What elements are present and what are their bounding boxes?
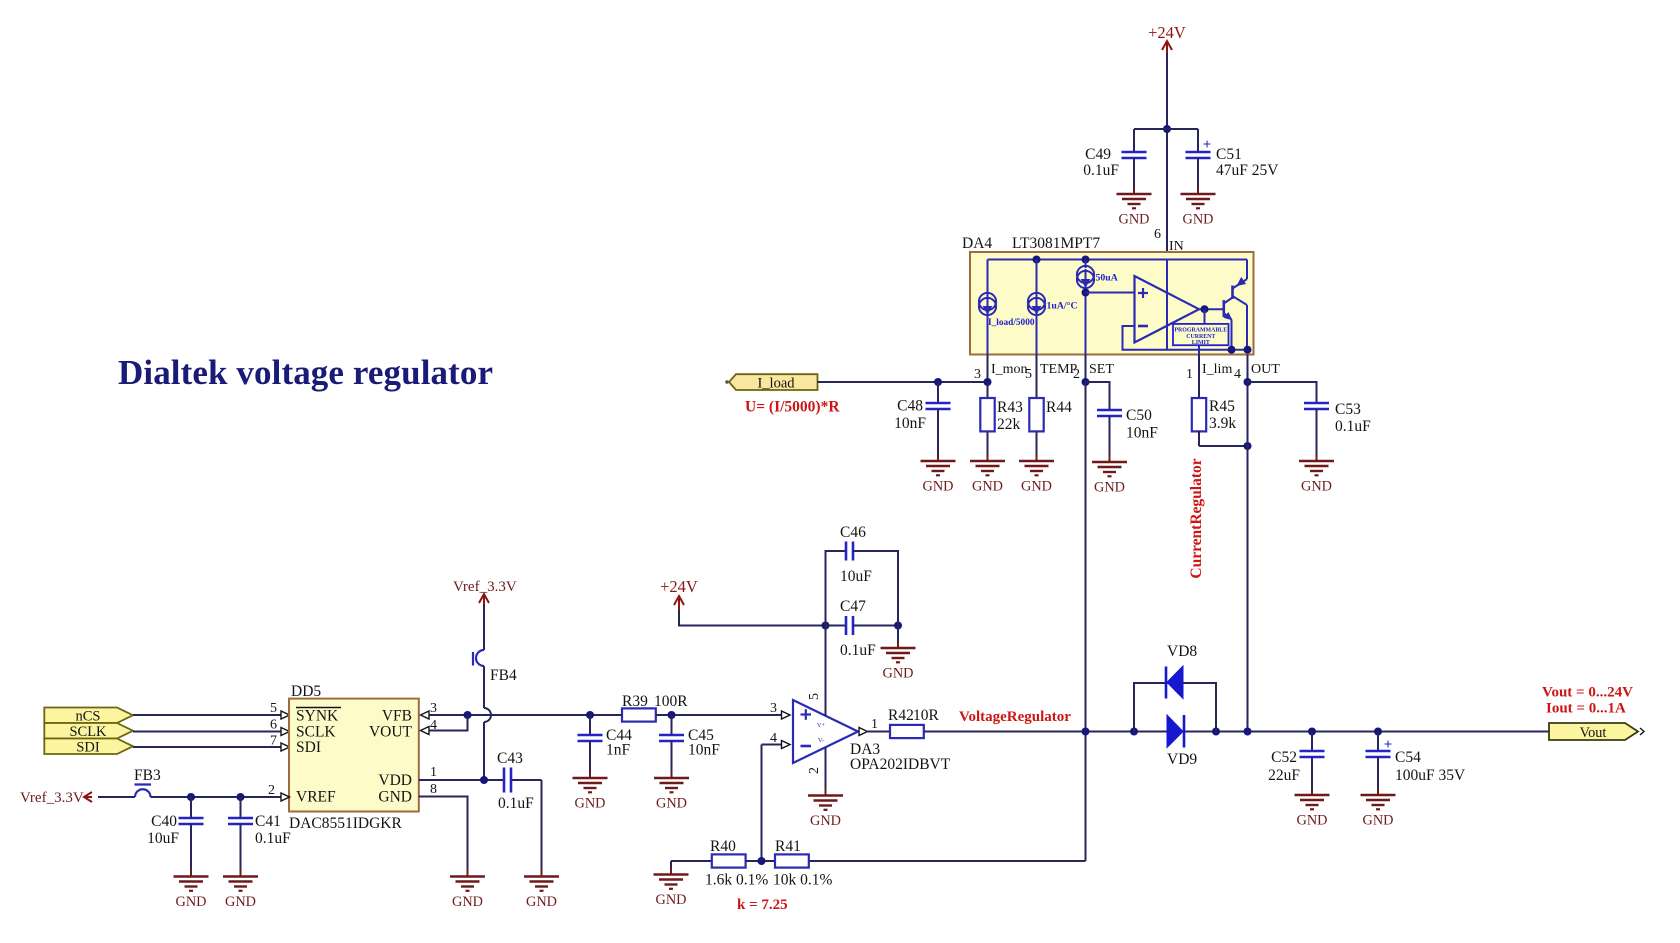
- diode VD8: [1167, 666, 1183, 699]
- svg-text:R43: R43: [997, 399, 1023, 416]
- svg-text:I_mon: I_mon: [991, 362, 1028, 377]
- wire nCS to SYNK: [133, 714, 281, 716]
- svg-text:4: 4: [1234, 367, 1241, 382]
- svg-text:6: 6: [1154, 227, 1161, 242]
- svg-text:5: 5: [1025, 367, 1032, 382]
- wire +24V to C47: [679, 610, 826, 626]
- node VD junction right: [1212, 728, 1220, 736]
- svg-text:1uA/°C: 1uA/°C: [1047, 301, 1078, 312]
- svg-text:SET: SET: [1089, 362, 1114, 377]
- node DA4 emitter-rail junction: [1228, 346, 1236, 354]
- capacitor C48 10nF: [937, 382, 939, 403]
- svg-text:SDI: SDI: [296, 739, 321, 756]
- wire PCL to I_lim pin: [1198, 345, 1200, 354]
- svg-text:GND: GND: [526, 894, 557, 910]
- svg-text:Dialtek voltage regulator: Dialtek voltage regulator: [118, 353, 493, 392]
- port SDI: [44, 739, 133, 755]
- pin 3 arrow (DA3 +): [782, 711, 791, 719]
- node VDD junction: [480, 776, 488, 784]
- svg-text:R42: R42: [888, 707, 914, 724]
- svg-text:VOUT: VOUT: [369, 724, 413, 741]
- svg-text:7: 7: [270, 734, 277, 749]
- svg-text:2: 2: [268, 783, 275, 798]
- svg-text:R44: R44: [1046, 399, 1072, 416]
- node OUT-C53 junction: [1244, 378, 1252, 386]
- wire +24V vertical to IN pin 6: [1166, 53, 1168, 260]
- ground GND (C43): [524, 875, 559, 878]
- svg-text:PROGRAMMABLE: PROGRAMMABLE: [1174, 328, 1227, 334]
- svg-text:LIMIT: LIMIT: [1192, 340, 1210, 346]
- wire VD8 bypass loop: [1134, 683, 1216, 732]
- svg-text:3.9k: 3.9k: [1209, 415, 1236, 432]
- capacitor C52 22uF: [1308, 728, 1316, 736]
- svg-text:I_load/5000: I_load/5000: [988, 318, 1035, 328]
- svg-text:2: 2: [1073, 367, 1080, 382]
- wire DA4 SET branch upper: [1085, 260, 1087, 269]
- svg-text:GND: GND: [923, 479, 954, 495]
- node SET-output junction: [1082, 728, 1090, 736]
- svg-text:R40: R40: [710, 838, 736, 855]
- svg-text:GND: GND: [883, 666, 914, 682]
- node C48 junction: [934, 378, 942, 386]
- svg-text:k = 7.25: k = 7.25: [737, 897, 788, 913]
- node C47 right junction: [894, 622, 902, 630]
- svg-text:IN: IN: [1169, 239, 1184, 254]
- wire output net to Vout: [924, 731, 1549, 733]
- ferrite bead FB4: [472, 652, 474, 666]
- svg-text:22k: 22k: [997, 416, 1021, 433]
- svg-text:GND: GND: [1183, 212, 1214, 228]
- node C40 junction: [187, 793, 195, 801]
- capacitor C50 10nF: [1086, 382, 1110, 410]
- svg-text:GND: GND: [972, 479, 1003, 495]
- transistor Q lower NPN (DA4 internal): [1223, 300, 1226, 317]
- wire R40-R41: [746, 860, 775, 862]
- svg-text:U= (I/5000)*R: U= (I/5000)*R: [745, 399, 840, 416]
- ground GND (C52): [1295, 794, 1330, 797]
- ground GND (C51): [1181, 193, 1216, 196]
- regulator U DA4 LT3081MPT7 body: [970, 252, 1254, 355]
- port I_load: [729, 374, 818, 390]
- node C47 left junction: [822, 622, 830, 630]
- node DA4 TEMP bus junction: [1033, 256, 1041, 264]
- svg-text:50uA: 50uA: [1096, 273, 1118, 284]
- svg-text:C47: C47: [840, 598, 866, 615]
- svg-text:100R: 100R: [654, 693, 688, 710]
- svg-text:GND: GND: [575, 796, 606, 812]
- svg-text:C49: C49: [1085, 146, 1111, 163]
- svg-text:GND: GND: [656, 892, 687, 908]
- svg-text:FB3: FB3: [134, 767, 161, 784]
- ground GND (C49): [1117, 193, 1152, 196]
- resistor R45 3.9k: [1192, 398, 1206, 431]
- block PROGRAMMABLE CURRENT LIMIT (DA4 internal): [1173, 324, 1229, 345]
- wire FB4 down with hop over VFB wire: [483, 666, 485, 708]
- ground GND (C47): [897, 626, 899, 642]
- svg-text:C46: C46: [840, 524, 866, 541]
- ground GND (R44): [1019, 460, 1054, 463]
- svg-text:0.1uF: 0.1uF: [255, 830, 291, 847]
- capacitor C44 1nF: [589, 715, 591, 735]
- svg-text:Vref_3.3V: Vref_3.3V: [20, 790, 84, 806]
- svg-text:GND: GND: [452, 894, 483, 910]
- wire OUT net vertical: [1247, 355, 1249, 732]
- capacitor C46 10uF (feedback loop): [826, 551, 847, 626]
- capacitor C51 47uF 25V (polarized): [1197, 129, 1199, 152]
- svg-text:1nF: 1nF: [606, 742, 631, 759]
- ground GND (C40): [174, 875, 209, 878]
- op-amp U DA3 OPA202IDBVT: [793, 700, 858, 763]
- resistor R40 1.6k 0.1%: [712, 854, 746, 867]
- node C44 junction: [586, 711, 594, 719]
- wire Vref to FB3: [98, 796, 135, 798]
- pin 4 arrow (DA3 -): [782, 741, 791, 749]
- node VFB junction: [464, 711, 472, 719]
- capacitor C47 0.1uF: [826, 625, 847, 627]
- svg-text:+: +: [1203, 137, 1212, 153]
- capacitor C53 0.1uF: [1248, 382, 1317, 403]
- ground GND (C45): [654, 777, 689, 780]
- svg-text:3: 3: [974, 367, 981, 382]
- svg-text:C43: C43: [497, 750, 523, 767]
- svg-text:6: 6: [270, 718, 277, 733]
- svg-text:SDI: SDI: [76, 740, 100, 756]
- svg-text:V+: V+: [817, 722, 826, 729]
- svg-text:C48: C48: [897, 398, 923, 415]
- svg-text:0.1uF: 0.1uF: [498, 795, 534, 812]
- svg-text:8: 8: [430, 782, 437, 797]
- wire I_load to I_mon: [818, 381, 988, 383]
- node I_mon junction: [984, 378, 992, 386]
- node +24V junction: [1163, 125, 1171, 133]
- svg-text:TEMP: TEMP: [1040, 362, 1078, 377]
- ground GND (C53): [1299, 460, 1334, 463]
- port Vout: [1549, 723, 1638, 740]
- svg-text:VD8: VD8: [1167, 643, 1197, 660]
- svg-text:SCLK: SCLK: [296, 724, 336, 741]
- ground GND (DD5 pin8): [450, 875, 485, 878]
- node DA4 SET bus junction: [1082, 256, 1090, 264]
- svg-text:Vout: Vout: [1580, 725, 1607, 741]
- svg-text:DD5: DD5: [291, 683, 321, 700]
- ground GND (C54): [1361, 794, 1396, 797]
- ground GND (DA3): [808, 794, 843, 797]
- port SCLK: [44, 723, 133, 739]
- ground GND (C50): [1092, 461, 1127, 464]
- wire DA4 feedback rail (minus input to output emitter): [1123, 326, 1249, 350]
- svg-text:R39: R39: [622, 693, 648, 710]
- transistor Q upper PNP (DA4 internal): [1231, 286, 1234, 300]
- resistor R41 10k 0.1%: [775, 854, 809, 867]
- pin 3 VFB arrow: [421, 711, 430, 719]
- svg-text:C52: C52: [1271, 749, 1297, 766]
- svg-text:VoltageRegulator: VoltageRegulator: [959, 709, 1071, 725]
- node R45-OUT junction: [1244, 442, 1252, 450]
- svg-text:VREF: VREF: [296, 789, 336, 806]
- pin 2 wire (DA3 V-) and ground: [825, 748, 827, 789]
- wire VFB net to R39: [468, 714, 623, 716]
- wire R39 to op-amp +: [656, 714, 781, 716]
- svg-text:DAC8551IDGKR: DAC8551IDGKR: [289, 815, 402, 832]
- svg-text:OPA202IDBVT: OPA202IDBVT: [850, 756, 951, 773]
- svg-text:47uF 25V: 47uF 25V: [1216, 162, 1279, 179]
- ground GND (C41): [223, 875, 258, 878]
- svg-text:10nF: 10nF: [688, 742, 720, 759]
- svg-text:GND: GND: [176, 894, 207, 910]
- svg-text:SYNK: SYNK: [296, 708, 339, 725]
- node DA4 rail-OUT junction: [1244, 346, 1252, 354]
- svg-text:3: 3: [430, 701, 437, 716]
- pin 5 wire (DA3 V+): [825, 626, 827, 717]
- capacitor C54 100uF 35V (polarized): [1374, 728, 1382, 736]
- svg-text:GND: GND: [225, 894, 256, 910]
- svg-text:R41: R41: [775, 838, 801, 855]
- svg-text:0.1uF: 0.1uF: [1335, 418, 1371, 435]
- ground GND (C48): [921, 460, 956, 463]
- node R40-R41 junction: [758, 857, 766, 865]
- op-amp DA4 internal error amplifier: [1135, 276, 1200, 343]
- current source I_load/5000 (DA4 internal): [979, 293, 996, 310]
- svg-text:10uF: 10uF: [840, 568, 872, 585]
- svg-text:C50: C50: [1126, 407, 1152, 424]
- ground GND (C44): [573, 777, 608, 780]
- svg-text:1: 1: [871, 717, 878, 732]
- svg-text:3: 3: [770, 701, 777, 716]
- resistor R42 10R: [890, 725, 924, 738]
- wire DA4 TEMP branch: [1036, 260, 1038, 355]
- svg-text:100uF 35V: 100uF 35V: [1395, 767, 1466, 784]
- svg-text:Iout = 0...1A: Iout = 0...1A: [1546, 701, 1626, 717]
- node I_load wire end: [725, 380, 729, 384]
- port nCS: [44, 708, 133, 724]
- svg-text:I_load: I_load: [757, 376, 795, 392]
- current source 1uA/degC (DA4 internal): [1028, 293, 1045, 310]
- svg-text:0.1uF: 0.1uF: [840, 642, 876, 659]
- svg-text:5: 5: [807, 693, 822, 700]
- node C41 junction: [237, 793, 245, 801]
- wire DA4 SET branch to + input: [1085, 286, 1087, 355]
- capacitor C49: [1133, 129, 1135, 152]
- svg-text:C41: C41: [255, 813, 281, 830]
- ferrite bead FB3: [135, 783, 152, 785]
- svg-text:OUT: OUT: [1251, 362, 1280, 377]
- svg-text:GND: GND: [810, 813, 841, 829]
- svg-text:10nF: 10nF: [1126, 425, 1158, 442]
- svg-text:10uF: 10uF: [147, 830, 179, 847]
- wire SDI to SDI: [133, 746, 281, 748]
- resistor R39 100R: [622, 708, 656, 721]
- svg-text:C54: C54: [1395, 749, 1421, 766]
- resistor R44: [1036, 355, 1038, 399]
- capacitor C41 0.1uF: [240, 797, 242, 818]
- svg-text:0.1uF: 0.1uF: [1083, 162, 1119, 179]
- wire DA4 internal top bus: [988, 259, 1248, 261]
- svg-text:GND: GND: [378, 789, 412, 806]
- svg-text:GND: GND: [1301, 479, 1332, 495]
- svg-text:R45: R45: [1209, 398, 1235, 415]
- pin 1 output arrow (DA3): [859, 728, 868, 736]
- svg-text:10nF: 10nF: [894, 415, 926, 432]
- node C45 junction: [668, 711, 676, 719]
- diode VD9: [1167, 715, 1183, 748]
- svg-text:GND: GND: [1119, 212, 1150, 228]
- ground GND (R43): [970, 460, 1005, 463]
- capacitor C43 0.1uF: [503, 768, 506, 793]
- svg-text:C51: C51: [1216, 146, 1242, 163]
- svg-text:1.6k 0.1%: 1.6k 0.1%: [705, 872, 768, 889]
- wire C49-C51 top bus: [1134, 128, 1198, 130]
- svg-text:CurrentRegulator: CurrentRegulator: [1188, 458, 1205, 578]
- svg-text:VFB: VFB: [382, 708, 412, 725]
- svg-text:FB4: FB4: [490, 667, 517, 684]
- node OUT-output junction: [1244, 728, 1252, 736]
- svg-text:VDD: VDD: [378, 772, 412, 789]
- node DA4 output-PCL junction: [1201, 305, 1209, 313]
- svg-text:10R: 10R: [913, 707, 940, 724]
- svg-text:22uF: 22uF: [1268, 767, 1300, 784]
- pin 4 VOUT arrow: [421, 727, 430, 735]
- svg-text:LT3081MPT7: LT3081MPT7: [1012, 235, 1100, 252]
- capacitor C45 10nF: [671, 715, 673, 735]
- svg-text:VD9: VD9: [1167, 751, 1197, 768]
- ground GND (R40 left): [671, 860, 712, 862]
- node VD junction left: [1130, 728, 1138, 736]
- wire DA4 amp output to transistor base: [1199, 308, 1224, 310]
- wire SCLK to SCLK: [133, 731, 281, 733]
- wire DA3 out to R42: [866, 731, 890, 733]
- wire VFB to node: [429, 714, 468, 716]
- svg-text:C53: C53: [1335, 401, 1361, 418]
- wire FB3 to VREF pin 2: [151, 796, 282, 798]
- wire VOUT up to VFB node: [429, 715, 468, 731]
- svg-text:C40: C40: [151, 813, 177, 830]
- svg-text:V-: V-: [818, 737, 824, 744]
- svg-text:GND: GND: [1297, 813, 1328, 829]
- svg-text:GND: GND: [1021, 479, 1052, 495]
- svg-text:Vref_3.3V: Vref_3.3V: [453, 579, 517, 595]
- svg-text:GND: GND: [656, 796, 687, 812]
- svg-text:GND: GND: [1363, 813, 1394, 829]
- dac U DD5 DAC8551IDGKR body: [289, 699, 419, 812]
- svg-text:Vout = 0...24V: Vout = 0...24V: [1542, 685, 1633, 701]
- svg-text:GND: GND: [1094, 480, 1125, 496]
- wire DA4 I_mon branch: [987, 260, 989, 355]
- svg-text:1: 1: [430, 765, 437, 780]
- wire Vref to FB4: [483, 605, 485, 650]
- svg-text:1: 1: [1186, 367, 1193, 382]
- svg-text:2: 2: [807, 767, 822, 774]
- node SET junction: [1082, 378, 1090, 386]
- svg-text:10k 0.1%: 10k 0.1%: [773, 872, 833, 889]
- svg-text:I_lim: I_lim: [1202, 362, 1232, 377]
- svg-text:5: 5: [270, 701, 277, 716]
- wire SET net vertical: [1085, 382, 1087, 861]
- current source 50uA (DA4 internal): [1077, 266, 1094, 283]
- svg-text:DA4: DA4: [962, 235, 992, 252]
- wire IN feed inside DA4: [1166, 260, 1168, 350]
- svg-text:+24V: +24V: [660, 577, 698, 596]
- resistor R43 22k: [987, 382, 989, 398]
- capacitor C40 10uF: [190, 797, 192, 818]
- wire R40-R41 to pin4 feedback: [762, 744, 782, 746]
- wire R41 to SET net: [809, 860, 1086, 862]
